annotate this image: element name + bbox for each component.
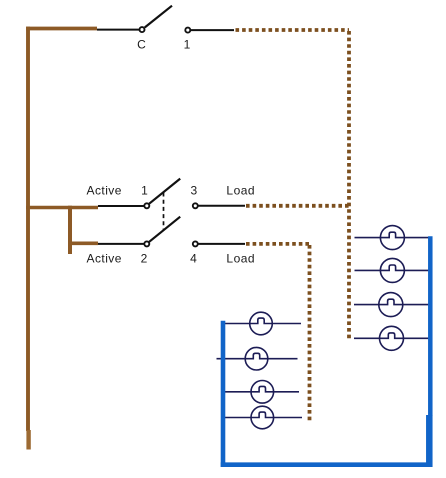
lamp L3 (left group) (222, 381, 300, 404)
switch SW2b lever (149, 217, 180, 242)
svg-text:Active: Active (87, 183, 122, 197)
svg-text:3: 3 (190, 183, 197, 197)
wire dotted switched active horizontal (top) (236, 28, 350, 32)
wire active branch vertical (brown) (68, 206, 72, 254)
wire active branch horizontal upper (brown) (26, 206, 98, 210)
wire black from terminal 3 (198, 205, 245, 207)
terminal 4 of switch SW2b (193, 241, 198, 246)
svg-text:Load: Load (226, 252, 255, 266)
wire black feed to switch C (97, 29, 140, 31)
switch SW1 lever (145, 6, 172, 28)
switch SW2a lever (149, 179, 180, 204)
wire dotted switched active vertical (right) (347, 31, 351, 339)
switch SW2a active terminal 1 (144, 203, 149, 208)
mechanical link (dashed) between SW2a and SW2b (163, 193, 165, 230)
neutral bus right vertical upper (blue) (428, 236, 433, 416)
wire dotted load 2 vertical (308, 245, 312, 422)
svg-text:C: C (137, 38, 146, 52)
lamp L7 (right group) (354, 293, 429, 317)
wire active feed left vertical (26, 27, 30, 431)
terminal 1 of switch SW1 (185, 28, 190, 33)
terminal 3 of switch SW2a (193, 203, 198, 208)
wire dotted load 2 horizontal (246, 242, 310, 246)
wire black from terminal 4 (198, 243, 245, 245)
lamp L2 (left group) (217, 347, 298, 370)
lamp L1 (left group) (222, 312, 301, 335)
svg-text:Active: Active (87, 252, 122, 266)
switch SW2b active terminal 2 (144, 241, 149, 246)
neutral bus bottom horizontal (blue) (221, 462, 432, 467)
svg-text:Load: Load (226, 183, 255, 197)
neutral bus left vertical (blue) (221, 321, 226, 467)
wire black from terminal 1 (191, 29, 234, 31)
wire black to switch 2a active (98, 205, 144, 207)
svg-text:1: 1 (141, 183, 148, 197)
wire active branch horizontal lower (brown) (68, 242, 98, 246)
lamp L6 (right group) (355, 258, 429, 282)
lamp L4 (left group) (222, 406, 303, 429)
wire dotted load 1 horizontal (246, 204, 349, 208)
wire active feed left vertical lower tip (26, 430, 30, 450)
switch SW1 common terminal C (140, 27, 145, 32)
wire black to switch 2b active (98, 243, 144, 245)
neutral bus right vertical lower (blue) (426, 415, 433, 467)
lamp L8 (right group) (354, 326, 429, 350)
svg-text:2: 2 (141, 252, 148, 266)
wire active feed top horizontal (26, 27, 97, 31)
lamp L5 (right group) (355, 226, 429, 250)
svg-text:4: 4 (190, 252, 197, 266)
svg-text:1: 1 (184, 38, 191, 52)
